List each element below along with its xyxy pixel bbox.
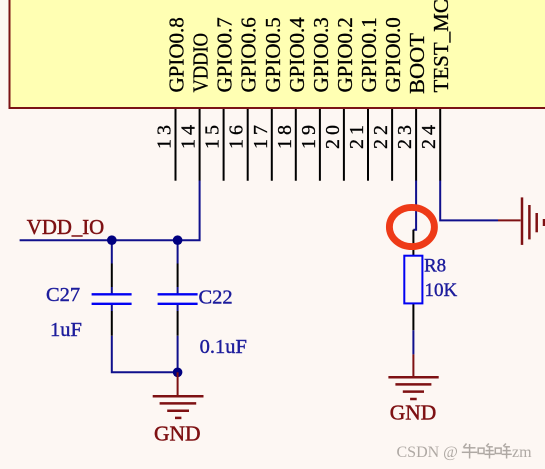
svg-text:GPIO0.6: GPIO0.6	[237, 17, 261, 92]
svg-text:13: 13	[154, 121, 176, 149]
svg-text:zm: zm	[512, 444, 532, 461]
svg-text:CSDN @: CSDN @	[397, 444, 458, 461]
svg-text:0.1uF: 0.1uF	[200, 336, 247, 358]
svg-text:TEST_MCU: TEST_MCU	[429, 0, 453, 93]
svg-text:C22: C22	[199, 286, 233, 308]
svg-text:20: 20	[322, 121, 344, 149]
svg-text:GPIO0.8: GPIO0.8	[165, 17, 189, 92]
svg-text:GPIO0.5: GPIO0.5	[261, 17, 285, 92]
svg-text:GPIO0.1: GPIO0.1	[357, 17, 381, 92]
svg-text:19: 19	[298, 121, 320, 149]
svg-text:GPIO0.0: GPIO0.0	[381, 17, 405, 92]
svg-text:R8: R8	[424, 256, 446, 277]
svg-text:18: 18	[274, 121, 296, 149]
svg-text:14: 14	[178, 121, 200, 149]
svg-text:10K: 10K	[425, 280, 458, 301]
svg-text:C27: C27	[46, 284, 80, 306]
svg-text:GPIO0.3: GPIO0.3	[309, 17, 333, 92]
svg-text:VDD_IO: VDD_IO	[27, 216, 104, 239]
svg-text:17: 17	[250, 121, 272, 149]
svg-text:GND: GND	[390, 401, 437, 425]
svg-text:15: 15	[202, 121, 224, 149]
svg-text:GND: GND	[154, 422, 201, 446]
svg-text:GPIO0.2: GPIO0.2	[333, 17, 357, 92]
svg-text:21: 21	[346, 121, 368, 149]
svg-text:GPIO0.7: GPIO0.7	[213, 17, 237, 92]
svg-text:BOOT: BOOT	[405, 33, 429, 94]
svg-text:GPIO0.4: GPIO0.4	[285, 17, 309, 93]
svg-text:VDDIO: VDDIO	[189, 33, 213, 93]
svg-text:22: 22	[370, 121, 392, 149]
svg-text:23: 23	[394, 121, 416, 149]
svg-text:24: 24	[418, 121, 440, 149]
svg-text:16: 16	[226, 121, 248, 149]
svg-text:1uF: 1uF	[50, 319, 82, 341]
